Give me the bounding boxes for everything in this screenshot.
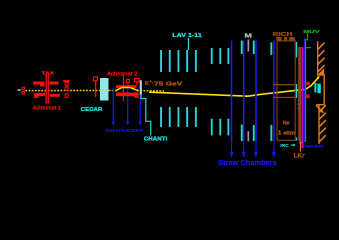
wire beam dashed left	[25, 90, 117, 92]
MUV1 blue line	[304, 38, 305, 142]
IRC line segments	[296, 42, 297, 141]
CHANTI bar	[140, 80, 142, 94]
red block above beam	[306, 82, 310, 86]
LAV group C bars	[241, 41, 272, 142]
GTK pointer line 3	[139, 85, 141, 122]
straw chamber 1	[231, 41, 233, 143]
svg-text:Straw Chambers: Straw Chambers	[218, 158, 277, 167]
LKr pointer	[299, 143, 301, 152]
collimator square on pointer	[126, 79, 129, 82]
svg-text:Achromat 2: Achromat 2	[107, 72, 137, 78]
LKr calorimeter band	[298, 47, 301, 141]
wire beam dashed mid	[137, 90, 164, 92]
svg-text:CEDAR: CEDAR	[81, 107, 103, 113]
target T10	[18, 89, 21, 91]
svg-text:75 GeV: 75 GeV	[154, 81, 183, 87]
quadrupole Q3	[134, 78, 139, 82]
svg-text:M: M	[244, 34, 252, 40]
RICH vessel	[277, 41, 295, 140]
magnet M bar top	[248, 40, 250, 52]
collimator jaws at target	[22, 87, 25, 94]
svg-text:1 atm: 1 atm	[278, 130, 296, 136]
magenta detector band	[301, 47, 303, 148]
CHANTI pointer	[141, 95, 151, 136]
svg-text:Ne: Ne	[283, 121, 290, 127]
GTK pointer line 1	[112, 88, 114, 122]
svg-text:GIGATRACKER: GIGATRACKER	[105, 128, 143, 134]
straw label arrows	[230, 143, 275, 157]
main solid beam line	[149, 78, 318, 97]
svg-text:TAX: TAX	[42, 70, 55, 75]
svg-text:LKr: LKr	[294, 153, 306, 160]
Achromat 2 pointer line	[123, 76, 124, 101]
LAV group B bars	[211, 48, 229, 135]
teal dashed segment	[297, 100, 299, 112]
Achromat 1 magnets	[33, 82, 60, 98]
LAV pointer line	[188, 38, 190, 50]
red block below beam	[306, 94, 309, 98]
MUV bracket	[305, 33, 308, 40]
iron wall hatches upper	[318, 43, 325, 72]
svg-text:Achromat 1: Achromat 1	[33, 105, 62, 111]
iron wall hatches lower	[319, 105, 326, 142]
quadrupole Q1	[63, 80, 70, 97]
Achromat 2 magnets	[116, 85, 139, 98]
svg-text:LAV 1-11: LAV 1-11	[172, 33, 202, 39]
MUV2 green line	[305, 40, 306, 142]
TAX pointer line	[46, 75, 47, 104]
RICH beam pipe	[274, 84, 296, 86]
CEDAR detector	[100, 78, 109, 101]
quadrupole Q2	[93, 77, 97, 97]
RICH top flanges	[276, 37, 294, 40]
LAV group A bars	[160, 50, 197, 127]
svg-text:CHANTI: CHANTI	[144, 136, 168, 142]
GTK pointer line 2	[127, 88, 129, 123]
GTK arrowheads	[112, 121, 142, 126]
magnet M bar bottom	[248, 131, 250, 141]
beam bump over achromat 2	[116, 87, 138, 90]
svg-text:MUV: MUV	[303, 29, 320, 34]
iron wall corner hatch	[318, 68, 324, 74]
deflected beam arrow	[316, 105, 321, 110]
IRC arrow	[291, 144, 294, 146]
beam end arrowhead	[317, 76, 320, 79]
svg-text:beam dump: beam dump	[305, 144, 324, 149]
straw chamber 2	[243, 41, 245, 143]
svg-text:IRC: IRC	[280, 143, 289, 149]
straw chamber 4	[273, 41, 275, 143]
iron wall outline	[316, 41, 324, 104]
SAC cyan bars	[314, 83, 316, 92]
straw chamber 3	[255, 41, 257, 143]
